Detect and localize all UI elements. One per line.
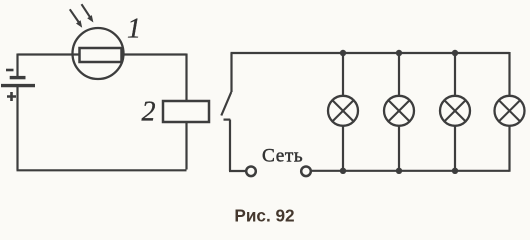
switch S1 armature	[221, 92, 231, 116]
lamp L4	[495, 96, 525, 126]
wire: lamp 4 right side leads	[508, 52, 510, 172]
wire: relay top to top wire	[185, 54, 187, 102]
wire: lamp 3 bottom lead	[454, 126, 456, 171]
svg-text:Рис. 92: Рис. 92	[234, 206, 294, 226]
label minus sign of battery	[6, 69, 14, 72]
light ray arrow 2	[82, 4, 90, 17]
switch S1 lower lead	[229, 120, 231, 171]
wire: right circuit top bus	[231, 52, 510, 54]
junction dot lamp2 bottom	[396, 168, 402, 174]
svg-text:Сеть: Сеть	[262, 146, 303, 167]
junction dot lamp1 top	[340, 50, 346, 56]
wire: to terminal 1	[229, 170, 246, 172]
relay K1 coil box	[163, 101, 209, 122]
switch S1 upper lead	[230, 53, 232, 92]
junction dot lamp1 bottom	[340, 168, 346, 174]
junction dot lamp2 top	[396, 50, 402, 56]
photoresistor R1 circle	[73, 28, 124, 79]
svg-text:1: 1	[127, 14, 141, 45]
battery GB1 plus plate	[1, 84, 35, 87]
lamp L2	[384, 96, 414, 126]
svg-text:2: 2	[142, 97, 156, 128]
photoresistor R1 resistor body	[80, 48, 122, 62]
wire: left loop top (battery to relay corner)	[18, 53, 187, 55]
wire: right circuit bottom bus	[311, 170, 510, 172]
wire: left loop left side lower (battery plus down)	[16, 86, 18, 170]
wire: left loop left side upper (to battery minus)	[16, 54, 18, 77]
label plus sign of battery	[7, 92, 16, 101]
terminal X2 (Сеть)	[301, 167, 311, 177]
lamp L1	[328, 96, 358, 126]
light ray arrow 1 head	[76, 20, 82, 27]
wire: lamp 1 top lead	[342, 53, 344, 97]
switch S1 fixed contact seat	[224, 118, 231, 120]
wire: relay bottom to loop bottom	[185, 122, 187, 170]
wire: left loop bottom	[17, 169, 187, 171]
battery GB1 minus plate	[10, 76, 26, 79]
light ray arrow 1	[70, 9, 79, 22]
wire: lamp 2 bottom lead	[398, 126, 400, 171]
junction dot lamp3 top	[452, 50, 458, 56]
wire: lamp 2 top lead	[398, 53, 400, 97]
light ray arrow 2 head	[87, 15, 93, 22]
wire: lamp 3 top lead	[454, 53, 456, 97]
wire: lamp 1 bottom lead	[342, 126, 344, 171]
junction dot lamp3 bottom	[452, 168, 458, 174]
lamp L3	[440, 96, 470, 126]
terminal X1 (Сеть)	[246, 167, 256, 177]
